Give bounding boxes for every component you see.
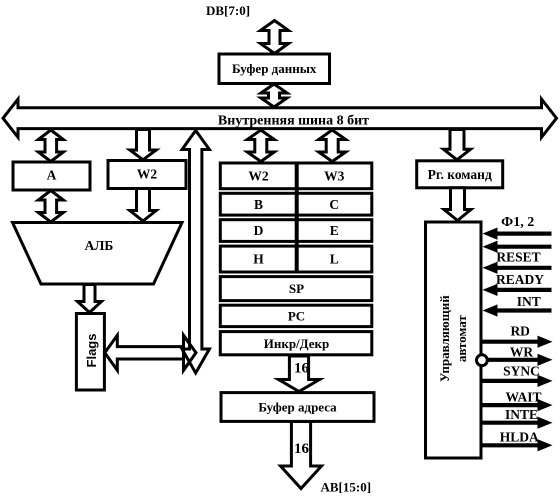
signal input READY: [495, 288, 552, 292]
register Рг. команд (instruction register): [417, 161, 503, 188]
svg-text:WAIT: WAIT: [505, 389, 541, 404]
svg-text:W3: W3: [324, 168, 345, 183]
signal output WAIT: [483, 403, 540, 407]
block: ALU (АЛБ) trapezoid: [13, 223, 183, 285]
svg-text:L: L: [330, 252, 339, 267]
svg-text:SYNC: SYNC: [503, 363, 540, 378]
block: address buffer (Буфер адреса): [221, 393, 374, 422]
wire: 16-bit arrow address buffer to AB: [281, 422, 322, 489]
inversion bubble on WR output: [477, 355, 488, 366]
wire: bidirectional arrow DB to data buffer: [261, 21, 289, 54]
svg-text:HLDA: HLDA: [500, 430, 539, 445]
wire: arrow W2 to ALU: [130, 189, 156, 222]
svg-text:PC: PC: [288, 309, 305, 324]
svg-text:READY: READY: [496, 272, 544, 287]
register row B/C: [220, 193, 371, 215]
signal input INT: [495, 308, 552, 312]
svg-text:C: C: [329, 197, 339, 212]
signal output SYNC: [483, 379, 540, 383]
svg-text:Внутренняя шина 8 бит: Внутренняя шина 8 бит: [218, 114, 369, 129]
register row Инкр/Декр: [220, 332, 371, 355]
wire: bidirectional arrow bus to register file W3 column: [319, 130, 346, 162]
svg-text:RD: RD: [510, 324, 530, 339]
signal input RESET: [495, 266, 552, 270]
register row SP: [220, 277, 371, 301]
signal input Ф1: [495, 232, 552, 236]
svg-text:Flags: Flags: [84, 334, 99, 368]
svg-text:W2: W2: [137, 167, 158, 182]
svg-text:INTE: INTE: [505, 407, 538, 422]
svg-text:автомат: автомат: [454, 315, 469, 363]
svg-text:RESET: RESET: [496, 250, 540, 265]
svg-text:D: D: [254, 223, 264, 238]
wire: bidirectional arrow bus to register file W2 column: [247, 130, 274, 162]
svg-text:SP: SP: [289, 281, 304, 296]
register row PC: [220, 305, 371, 326]
signal output WR: [489, 358, 540, 362]
register A: [13, 162, 90, 190]
svg-text:16: 16: [294, 441, 310, 457]
wire: bidirectional arrow A to ALU: [38, 191, 63, 223]
svg-text:WR: WR: [510, 345, 534, 360]
signal output HLDA: [483, 443, 540, 447]
register Flags: [76, 314, 104, 391]
svg-text:Управляющий: Управляющий: [437, 295, 452, 382]
register W2 (temp): [108, 161, 186, 189]
svg-text:W2: W2: [248, 168, 269, 183]
svg-text:INT: INT: [517, 294, 541, 309]
wire: bidirectional arrow Flags to long arrow: [105, 335, 196, 370]
wire: 16-bit arrow register file to address buffer: [279, 356, 320, 392]
register row W2/W3: [220, 163, 371, 189]
wire: long bidirectional arrow bus to flags junction: [182, 131, 209, 374]
svg-text:Рг. команд: Рг. команд: [428, 167, 492, 182]
wire: bidirectional arrow bus to A: [38, 130, 63, 162]
svg-text:DB[7:0]: DB[7:0]: [206, 3, 250, 18]
svg-text:Инкр/Декр: Инкр/Декр: [264, 336, 330, 351]
bus: internal 8-bit bus (Внутренняя шина 8 бит): [3, 99, 557, 137]
wire: arrow bus to instruction register: [444, 130, 471, 160]
svg-text:16: 16: [294, 361, 310, 377]
svg-text:H: H: [253, 252, 264, 267]
block: control unit (Управляющий автомат): [426, 222, 482, 458]
register file middle divider: [295, 163, 299, 272]
svg-text:AB[15:0]: AB[15:0]: [321, 480, 372, 495]
signal output RD: [483, 340, 540, 344]
register row D/E: [220, 220, 371, 242]
register row H/L: [220, 246, 371, 272]
wire: bidirectional arrow data buffer to internal bus: [261, 84, 287, 107]
wire: arrow instruction register to control unit: [444, 188, 471, 221]
svg-text:A: A: [47, 168, 57, 183]
wire: arrow bus to W2 temp register: [130, 130, 156, 160]
svg-text:B: B: [254, 197, 263, 212]
block: data buffer (Буфер данных): [219, 54, 330, 84]
svg-text:Ф1, 2: Ф1, 2: [501, 215, 534, 230]
signal output INTE: [483, 421, 540, 425]
svg-text:АЛБ: АЛБ: [85, 238, 114, 253]
svg-text:Буфер данных: Буфер данных: [232, 61, 317, 76]
svg-text:Буфер адреса: Буфер адреса: [258, 400, 337, 415]
wire: arrow ALU to Flags: [78, 285, 102, 313]
junction: flags arrow head overlay: [184, 335, 197, 370]
svg-text:E: E: [330, 223, 339, 238]
signal input Ф2: [495, 245, 552, 249]
